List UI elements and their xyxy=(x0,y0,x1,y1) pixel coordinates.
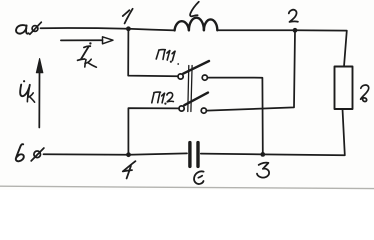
terminal b xyxy=(31,148,44,161)
node 3 xyxy=(260,152,265,157)
label 3 xyxy=(257,163,269,178)
voltage arrow Uk xyxy=(36,59,43,128)
label Ik xyxy=(78,42,97,67)
wire node 2 to top-right corner xyxy=(295,30,347,66)
label 2 xyxy=(289,10,298,22)
node 4 xyxy=(126,152,131,157)
inductor L xyxy=(175,18,218,31)
resistor r xyxy=(335,67,353,110)
label b xyxy=(16,144,24,161)
label a xyxy=(16,25,29,34)
switch П1.1 xyxy=(178,61,209,80)
switch linkage xyxy=(188,66,192,112)
wire capacitor to node 4 xyxy=(129,153,188,154)
label Uk xyxy=(20,80,34,102)
label L xyxy=(190,2,199,17)
current arrow Ik xyxy=(61,37,113,44)
label r xyxy=(361,85,369,101)
label 1 xyxy=(123,9,133,24)
wire node 1 to inductor xyxy=(128,29,174,31)
node 2 xyxy=(293,28,298,33)
wire node 4 up to switch П1.2 xyxy=(128,108,178,155)
wire resistor to bottom-right corner xyxy=(263,109,345,155)
wire a to node 1 xyxy=(41,27,129,30)
label 4 xyxy=(123,161,136,178)
wire inductor to node 2 xyxy=(217,29,295,31)
wire node 4 to terminal b xyxy=(44,153,129,156)
wire node 3 to capacitor xyxy=(201,153,263,156)
capacitor C xyxy=(190,143,198,167)
label П1.1 xyxy=(156,50,179,65)
wire П1.2 to node 2 xyxy=(207,30,296,110)
wire node 1 down to switch П1.1 xyxy=(128,29,178,77)
label П1.2 xyxy=(152,92,174,105)
wire П1.1 to node 3 xyxy=(208,78,263,155)
terminal a xyxy=(30,22,42,34)
switch П1.2 xyxy=(179,93,208,114)
label C xyxy=(194,171,204,184)
node 1 xyxy=(126,26,131,31)
